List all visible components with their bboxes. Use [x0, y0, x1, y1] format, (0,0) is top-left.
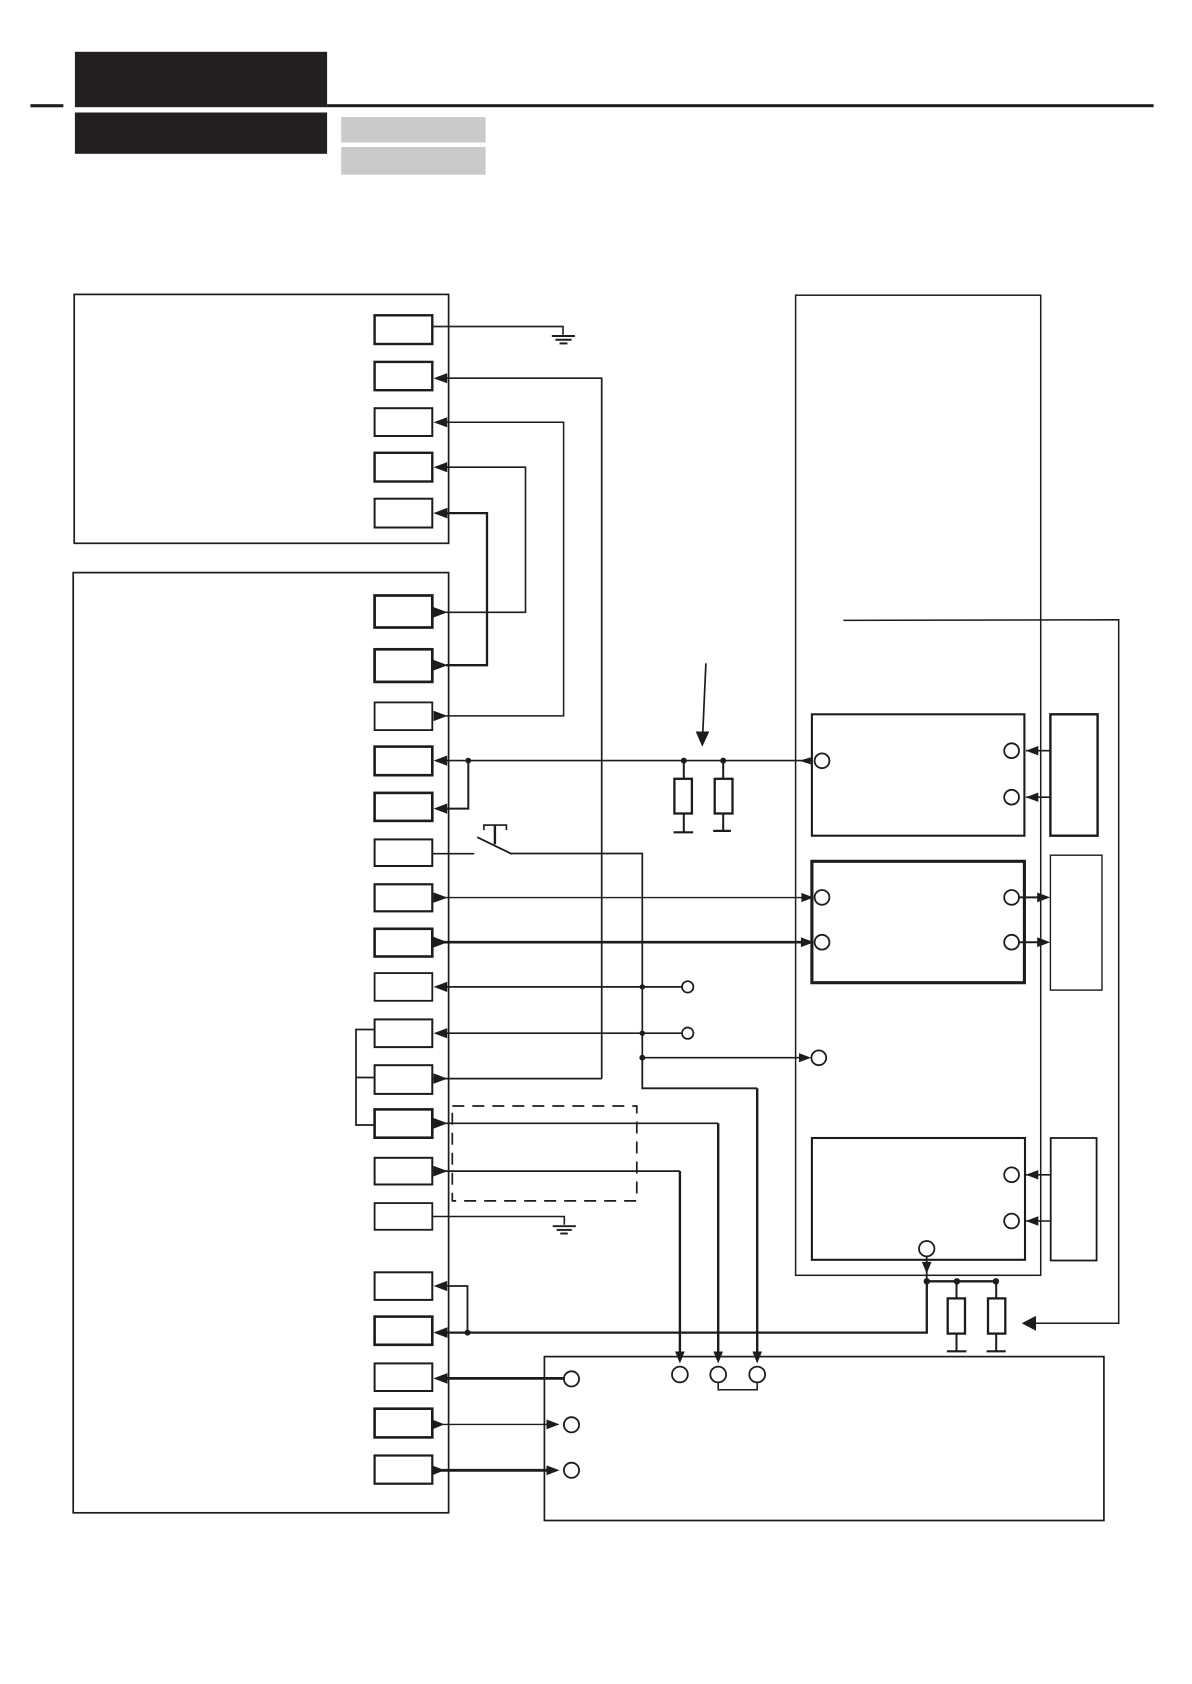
- header margin dash: [30, 104, 63, 107]
- node bus dot 2: [954, 1278, 960, 1284]
- wire U2 pin E branch from D-wire node: [434, 761, 469, 814]
- relay K1: [812, 714, 1025, 835]
- header title bar 1 (redacted): [75, 52, 327, 107]
- U4 terminal 1: [672, 1367, 688, 1383]
- U2 pin H: [375, 929, 433, 957]
- resistor R2: [715, 779, 733, 814]
- resistor R4: [988, 1298, 1005, 1333]
- resistor R3 top lead: [956, 1281, 958, 1298]
- fuse box F2: [1050, 855, 1102, 990]
- resistor R2 top lead: [722, 761, 724, 779]
- relay K2: [812, 861, 1025, 982]
- wire U2 pin O branch: [434, 1281, 468, 1333]
- wire U1 pin5 from U2 pin B: [433, 508, 487, 671]
- ground GND2: [553, 1226, 576, 1233]
- wire U2 pin J to test terminal T2: [434, 1028, 682, 1038]
- ground GND1: [552, 336, 575, 343]
- U2 pin G: [375, 884, 433, 911]
- header gray label 2: [341, 147, 485, 175]
- wire U1 pin1 to ground: [432, 327, 563, 335]
- U1 pin 1: [375, 315, 433, 344]
- wire U2 pin G to relay K2: [432, 892, 813, 902]
- U2 pin P: [375, 1317, 433, 1345]
- U1 pin 5: [375, 499, 433, 528]
- U2 pin O: [375, 1272, 433, 1300]
- wire K2 terminal d to fuse box F2: [1019, 937, 1050, 947]
- U2 pin F: [375, 839, 433, 866]
- wire U2 pin N to ground: [432, 1217, 564, 1225]
- ECU block U2 (lower-left): [73, 573, 448, 1513]
- U2 pin Q: [375, 1363, 433, 1391]
- pull-down arrow annotation: [696, 663, 710, 747]
- U2 pin J: [375, 1019, 433, 1047]
- wire bus W3 branch to relay K3 terminal: [639, 1053, 811, 1062]
- U2 pin B: [375, 649, 433, 682]
- relay K2 terminal c: [1004, 890, 1019, 905]
- relay K2 terminal d: [1004, 935, 1019, 950]
- wire U2 pin F to switch: [432, 853, 474, 855]
- wire U1 pin3 from U2 pin C: [434, 417, 564, 721]
- resistor R3 bottom lead and bar: [956, 1334, 958, 1351]
- wire U2 pin L to U4 terminal 2: [432, 1118, 723, 1364]
- U2 pin A: [375, 596, 433, 628]
- wire K2 terminal c to fuse box F2: [1019, 893, 1050, 903]
- U4 terminal 2: [710, 1367, 726, 1383]
- wire K3 terminal b from fuse box F3: [1026, 1170, 1051, 1179]
- wire U2 pin M to U4 terminal 1: [432, 1166, 684, 1364]
- node bus dot 1: [924, 1278, 930, 1284]
- resistor R4 top lead: [995, 1281, 997, 1298]
- wire U2 pin S to U4 terminal: [432, 1465, 559, 1475]
- ECU block U1 (top-left): [74, 294, 448, 543]
- relay K1 terminal a: [815, 753, 830, 768]
- U4 terminal s: [564, 1463, 579, 1478]
- wire U2 pin Q from U4 terminal: [433, 1373, 564, 1384]
- wire U1 pin2 from vertical bus W2: [434, 373, 602, 1079]
- U2 pin K: [375, 1065, 433, 1094]
- resistor R2 bottom lead and bar: [722, 814, 724, 831]
- relay K1 terminal c: [1004, 790, 1019, 805]
- wire bus W3 lower run to U4 terminal: [642, 1058, 757, 1089]
- U2 pin I: [375, 973, 433, 1001]
- U2 pin S: [375, 1456, 433, 1484]
- wire K3 bottom terminal to resistor bus: [922, 1256, 932, 1281]
- U2 pin L: [375, 1109, 433, 1137]
- wire K3 terminal c from fuse box F3: [1026, 1216, 1051, 1225]
- wire feedback from module U3 down right side: [843, 620, 1118, 1324]
- relay K2 terminal a: [815, 890, 830, 905]
- resistor R1 bottom lead and bar: [683, 814, 685, 833]
- relay K3: [812, 1138, 1025, 1260]
- relay K3 terminal b: [1004, 1167, 1019, 1182]
- bracket joining U2 pins J K L: [356, 1030, 375, 1126]
- switch S1 blade: [477, 837, 511, 854]
- link strap between U4 terminals 2 and 3: [718, 1382, 757, 1389]
- module block U4 (bottom): [544, 1357, 1104, 1521]
- wire K1 terminal b from fuse box F1: [1026, 746, 1051, 755]
- junction node at D wire: [465, 758, 471, 764]
- test terminal T2: [682, 1028, 693, 1039]
- resistor bus node line: [927, 1280, 996, 1282]
- wire U2 pin K to bus W2: [432, 1073, 601, 1083]
- resistor R1 top lead: [683, 761, 685, 779]
- node bus dot 3: [993, 1278, 999, 1284]
- U2 pin D: [375, 747, 433, 776]
- switch S1 fixed contact: [484, 825, 507, 844]
- U2 pin N: [375, 1203, 433, 1230]
- wire U2 pin R to U4 terminal: [432, 1420, 559, 1430]
- resistor R4 bottom lead and bar: [995, 1334, 997, 1351]
- U1 pin 4: [375, 453, 433, 482]
- resistor R3: [948, 1298, 965, 1333]
- test terminal T1: [682, 981, 693, 992]
- U2 pin M: [375, 1158, 433, 1185]
- U1 pin 2: [375, 362, 433, 390]
- relay K3 bottom terminal: [919, 1241, 934, 1256]
- U2 pin R: [375, 1409, 433, 1438]
- relay K3 terminal c: [1004, 1214, 1019, 1229]
- arrowhead into resistor bank: [1022, 1316, 1036, 1331]
- wire K1 terminal c from fuse box F1: [1026, 793, 1051, 802]
- wire U2 pin D from relay K1 coil terminal: [434, 756, 815, 766]
- relay K3 terminal a: [811, 1050, 826, 1065]
- fuse box F1: [1050, 714, 1097, 835]
- relay K2 terminal b: [815, 935, 830, 950]
- fuse box F3: [1051, 1138, 1097, 1261]
- U4 terminal q: [564, 1371, 579, 1386]
- U4 terminal r: [564, 1417, 579, 1432]
- U1 pin 3: [375, 408, 433, 436]
- U2 pin C: [375, 702, 433, 730]
- wire U1 pin4 from U2 pin A: [434, 462, 526, 617]
- wire U2 pin P to resistor bus: [433, 1281, 926, 1338]
- shield dashed box: [452, 1106, 637, 1201]
- module block U3 (right): [796, 295, 1041, 1275]
- U2 pin E: [375, 793, 433, 821]
- wire U2 pin I to test terminal T1: [434, 982, 682, 992]
- wire switch to vertical bus W3: [511, 854, 643, 1058]
- header title bar 2 (redacted): [75, 113, 327, 154]
- resistor R1: [674, 779, 692, 814]
- U4 terminal 3: [749, 1367, 765, 1383]
- wire U2 pin H to relay K2: [432, 937, 814, 948]
- header rule: [327, 104, 1154, 107]
- arrowhead into U4 terminal 3: [752, 1352, 762, 1364]
- header gray label 1: [341, 117, 485, 143]
- relay K1 terminal b: [1004, 743, 1019, 758]
